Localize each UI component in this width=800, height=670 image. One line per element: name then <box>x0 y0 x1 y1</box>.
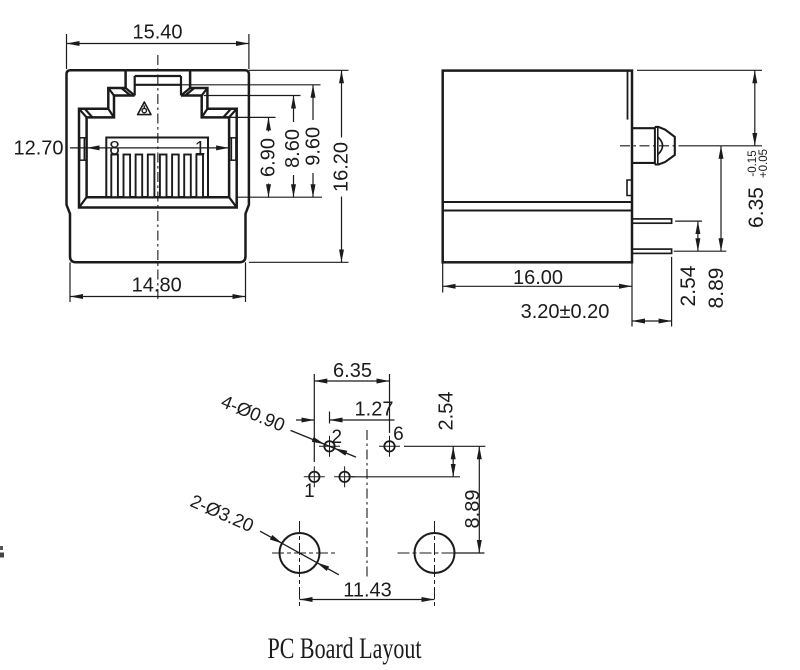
svg-text:16.20: 16.20 <box>331 142 353 192</box>
svg-text:14.80: 14.80 <box>132 275 182 297</box>
svg-text:2.54: 2.54 <box>677 265 700 306</box>
pcb: hole 2 <box>319 436 340 457</box>
svg-text:11.43: 11.43 <box>343 580 392 602</box>
front view: right latch ear <box>229 138 236 160</box>
svg-text:-0.15: -0.15 <box>747 150 759 176</box>
dimension 6.35 +0.05/-0.15 <box>637 70 762 146</box>
dimension 1.27 (pcb) <box>296 412 395 424</box>
side view: small notch on right face <box>627 180 632 196</box>
side view: latch stem <box>632 127 658 165</box>
front view: socket opening inner contour B <box>87 96 230 198</box>
svg-text:2-Ø3.20: 2-Ø3.20 <box>187 490 257 536</box>
svg-text:1: 1 <box>304 481 315 502</box>
dimension 3.20±0.20 <box>632 257 672 327</box>
dimension 8.60 <box>293 96 295 198</box>
svg-text:6.35: 6.35 <box>333 360 372 382</box>
front view: warning triangle symbol <box>138 102 151 115</box>
pcb: big hole right <box>398 521 472 606</box>
dimension 2.54 (pcb) <box>351 446 485 477</box>
pcb: center axis <box>366 430 368 577</box>
svg-text:3.20±0.20: 3.20±0.20 <box>521 301 610 323</box>
dimension 16.00 <box>443 262 632 326</box>
dimension 8.89 (pcb) <box>455 446 485 553</box>
svg-text:15.40: 15.40 <box>132 22 182 44</box>
dimension 6.90 <box>268 117 270 197</box>
svg-text:+0.05: +0.05 <box>758 149 770 178</box>
front view: socket opening outer contour A <box>79 70 237 207</box>
svg-text:8.89: 8.89 <box>705 268 728 309</box>
dimension 14.80 <box>70 262 246 302</box>
svg-text:16.00: 16.00 <box>513 267 563 289</box>
extension lines for right-hand vertical dimensions <box>181 70 349 262</box>
dimension 16.20 <box>341 70 343 262</box>
svg-text:1.27: 1.27 <box>355 399 394 421</box>
dimension 8.89 (side) <box>674 146 727 251</box>
svg-text:PC Board Layout: PC Board Layout <box>268 632 422 665</box>
side view: latch head <box>655 127 675 165</box>
dimension 11.43 (pcb) <box>300 599 435 601</box>
svg-text:6.90: 6.90 <box>258 138 280 177</box>
svg-text:6.35: 6.35 <box>745 187 768 228</box>
pcb: hole 1 <box>304 466 325 487</box>
svg-text:8.89: 8.89 <box>462 490 484 529</box>
pcb: hole 5 <box>334 466 355 487</box>
front view: contact block inner frame <box>106 138 208 198</box>
dimension 12.70 <box>70 147 229 149</box>
front view: 8 contact bars <box>111 155 203 198</box>
front view: left latch ear <box>80 138 87 160</box>
front view: center line <box>157 55 159 302</box>
svg-text:8: 8 <box>109 139 120 160</box>
side view: lower pin <box>632 249 672 253</box>
side view: latch inner arc <box>658 137 663 155</box>
svg-text:2: 2 <box>332 427 343 448</box>
svg-text:2.54: 2.54 <box>436 392 458 431</box>
dimension 6.35 (pcb) <box>314 374 389 462</box>
front view: bevel diagonals <box>79 88 237 208</box>
front view: connector body outline <box>67 70 249 262</box>
svg-text:8.60: 8.60 <box>282 129 304 168</box>
stray mark at left edge <box>0 546 3 550</box>
svg-text:9.60: 9.60 <box>303 127 325 166</box>
svg-text:12.70: 12.70 <box>13 138 63 160</box>
side view: inner edge line near right face <box>627 71 629 120</box>
side view: upper pin <box>632 219 672 223</box>
svg-text:1: 1 <box>195 139 206 160</box>
svg-text:4-Ø0.90: 4-Ø0.90 <box>218 391 288 436</box>
dimension 9.60 <box>312 85 314 197</box>
side view: body outline <box>443 71 632 263</box>
pcb: big hole left <box>272 521 337 606</box>
dimension 2.54 (side) <box>675 221 702 251</box>
pcb: hole 6 <box>379 436 400 457</box>
side view: housing/base seam lines <box>443 201 632 203</box>
front view: tab inner bevel rectangle <box>135 76 181 96</box>
side view: latch center line <box>620 145 680 147</box>
dimension 15.40 <box>67 34 249 69</box>
svg-text:6: 6 <box>393 424 404 445</box>
